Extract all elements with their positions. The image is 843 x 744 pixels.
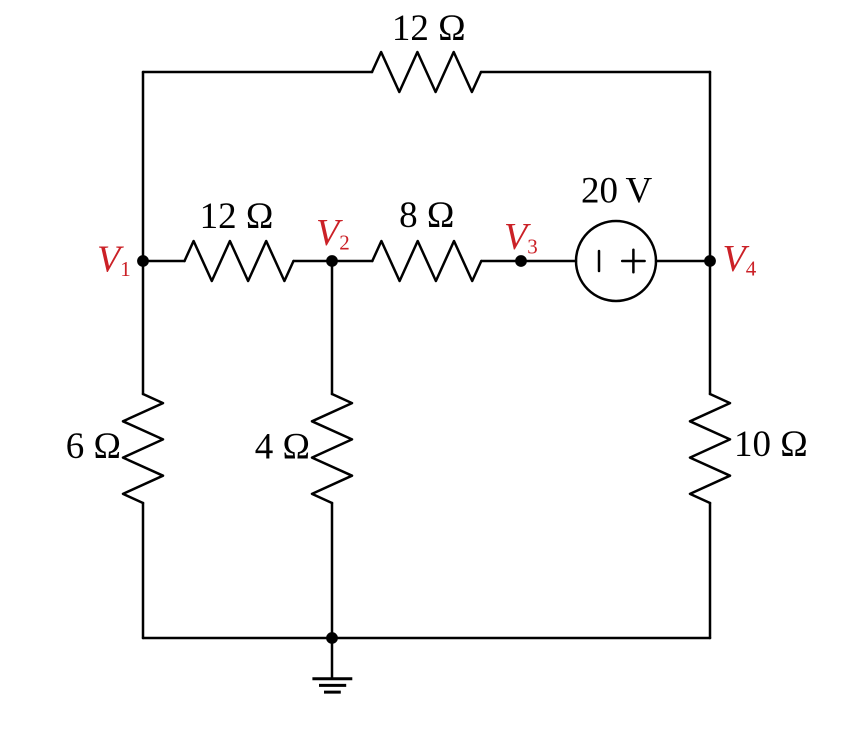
resistor R-mid 12ohm (horizontal, between V1 and V2) <box>185 241 294 281</box>
node V2 junction dot <box>326 255 338 267</box>
svg-text:V2: V2 <box>316 212 350 255</box>
svg-text:6 Ω: 6 Ω <box>66 426 121 467</box>
ground symbol bar 1 <box>312 677 352 680</box>
wire: top-left horizontal (corner to 12ohm resistor) <box>143 71 372 74</box>
wire: bottom horizontal <box>143 637 710 640</box>
resistor R-mid 8ohm (horizontal, between V2 and V3) <box>372 241 481 281</box>
wire: middle horizontal V1 to 12ohm <box>143 260 185 263</box>
wire: ground stub <box>331 638 334 678</box>
wire: middle vertical V2 to 4ohm <box>331 261 334 394</box>
resistor R-mid 4ohm (vertical) <box>312 394 352 503</box>
ground node junction dot <box>326 632 338 644</box>
svg-text:4 Ω: 4 Ω <box>255 426 310 467</box>
node V1 junction dot <box>137 255 149 267</box>
node V3 junction dot <box>515 255 527 267</box>
wire: V3 to source <box>521 260 576 263</box>
wire: top-right horizontal (resistor to corner) <box>481 71 710 74</box>
svg-text:V4: V4 <box>723 238 757 281</box>
svg-text:8 Ω: 8 Ω <box>399 195 454 236</box>
svg-text:12 Ω: 12 Ω <box>392 8 466 49</box>
svg-text:10 Ω: 10 Ω <box>734 424 808 465</box>
ground symbol bar 2 <box>319 684 346 687</box>
wire: right vertical upper (top corner to V4) <box>709 72 712 261</box>
wire: left vertical (V1 down to 6ohm resistor) <box>142 261 145 394</box>
node V4 junction dot <box>704 255 716 267</box>
wire: right vertical lower (resistor to bottom corner) <box>709 503 712 638</box>
svg-text:12 Ω: 12 Ω <box>200 196 274 237</box>
wire: V2 to 8ohm <box>332 260 372 263</box>
wire: left vertical upper (top corner down to node V1) <box>142 72 145 261</box>
wire: middle vertical lower (4ohm to bottom wire) <box>331 503 334 638</box>
svg-text:V3: V3 <box>504 216 538 259</box>
wire: left vertical lower (resistor to bottom corner) <box>142 503 145 638</box>
resistor R-right 10ohm (vertical) <box>690 394 730 503</box>
wire: 12ohm to V2 <box>294 260 333 263</box>
wire: source to V4 <box>656 260 710 263</box>
wire: right vertical (V4 to 10ohm) <box>709 261 712 394</box>
resistor R-top 12ohm (horizontal, on top wire) <box>372 52 481 92</box>
voltage source plus sign <box>622 260 644 263</box>
voltage source VS 20V (circle) <box>576 221 656 301</box>
svg-text:20V: 20V <box>581 171 653 212</box>
voltage source minus terminal bar <box>598 251 601 271</box>
svg-text:V1: V1 <box>97 239 131 282</box>
wire: 8ohm to V3 <box>481 260 521 263</box>
ground symbol bar 3 <box>324 691 341 694</box>
resistor R-left 6ohm (vertical) <box>123 394 163 503</box>
